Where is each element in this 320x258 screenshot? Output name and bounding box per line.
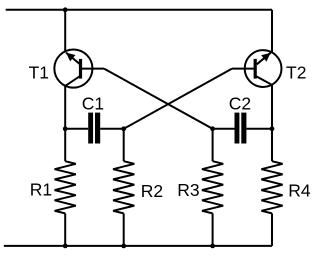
transistor T2 — [245, 50, 282, 87]
svg-text:T2: T2 — [286, 63, 306, 83]
svg-text:C2: C2 — [229, 93, 251, 113]
node C2 right / T2 emitter — [270, 126, 275, 131]
svg-text:R1: R1 — [30, 180, 52, 200]
capacitor C2 — [235, 113, 247, 144]
wire C2 right — [246, 128, 272, 130]
wire C1 left — [65, 128, 88, 130]
wire C1 right — [100, 128, 124, 130]
transistor T1 — [54, 50, 92, 88]
node bottom rail / R1 — [63, 244, 68, 249]
wire T2 base horizontal — [232, 68, 254, 70]
node bottom rail / R2 — [121, 244, 126, 249]
svg-text:R2: R2 — [141, 181, 163, 201]
resistor R2 — [113, 129, 134, 246]
wire top supply rail — [6, 9, 272, 11]
resistor R1 — [55, 129, 76, 246]
resistor R3 — [202, 129, 223, 246]
node bottom rail / R3 — [210, 244, 215, 249]
svg-text:C1: C1 — [82, 93, 104, 113]
wire T2 base cross-coupling diagonal to R2/C1 node — [124, 69, 232, 129]
wire T2 lower lead to C2 node — [271, 85, 273, 129]
wire T1 lower lead to C1 node — [64, 86, 66, 129]
svg-text:R3: R3 — [177, 180, 199, 200]
wire right vertical from top rail to T2 — [271, 10, 273, 53]
resistor R4 — [261, 129, 282, 214]
wire T1 base cross-coupling diagonal to R3/C2 node — [104, 69, 213, 129]
wire R4 bottom lead to bottom rail — [271, 213, 273, 246]
wire bottom rail — [4, 245, 272, 247]
node top rail / T1 collector — [63, 7, 68, 12]
node C1 left / T1 emitter — [63, 126, 68, 131]
svg-text:R4: R4 — [288, 180, 311, 200]
wire T1 collector lead — [64, 10, 66, 52]
capacitor C1 — [88, 113, 100, 144]
node C2 left / R3 top — [210, 126, 215, 131]
svg-text:T1: T1 — [29, 63, 49, 83]
node C1 right / R2 top — [121, 126, 126, 131]
wire T1 base horizontal — [81, 68, 104, 70]
wire C2 left — [213, 128, 235, 130]
